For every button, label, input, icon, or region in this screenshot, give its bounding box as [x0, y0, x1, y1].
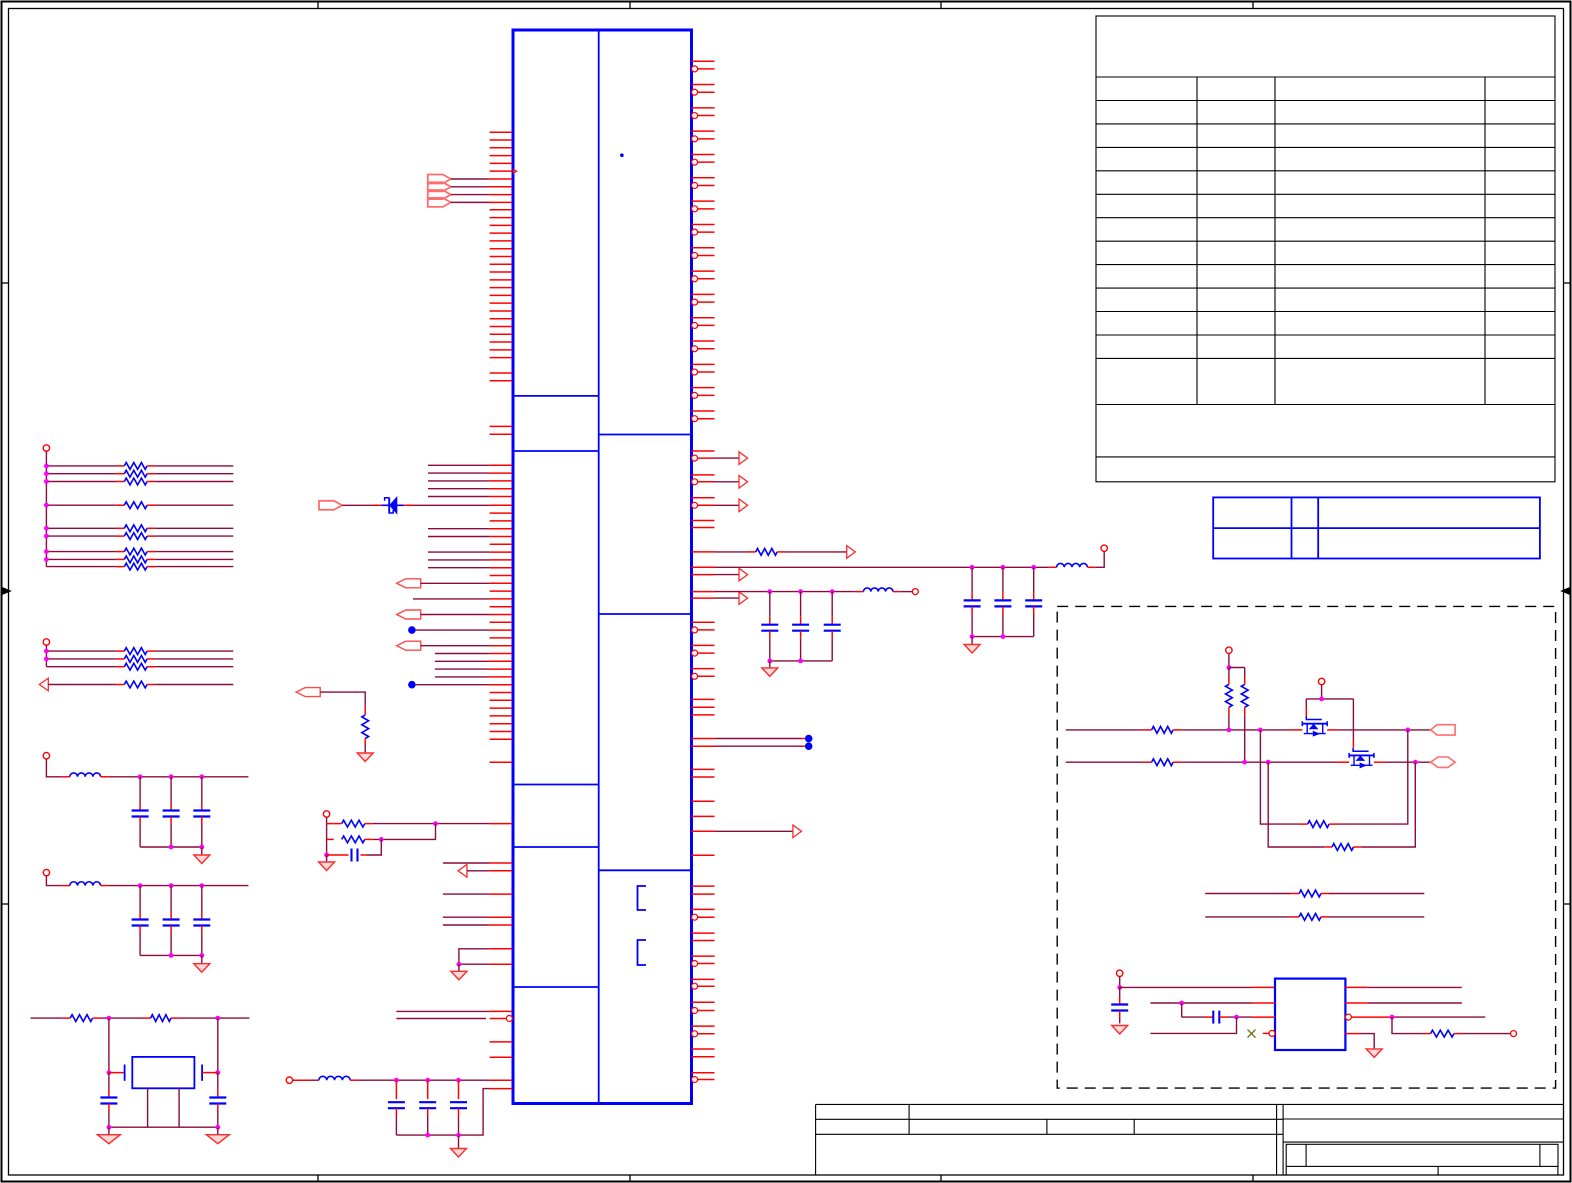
capacitor C13	[769, 592, 771, 617]
junction	[215, 1070, 220, 1075]
wire	[1321, 685, 1323, 699]
wire	[443, 924, 490, 926]
revision table	[1096, 16, 1555, 482]
wire	[1462, 1033, 1510, 1035]
junction	[199, 883, 204, 888]
wire	[459, 949, 490, 964]
resistor R3	[46, 481, 116, 483]
U2 pin bubble	[1263, 1032, 1270, 1034]
capacitor C7	[108, 1073, 110, 1090]
wire	[451, 194, 490, 196]
resistor R12	[46, 666, 116, 668]
resistor R22	[1244, 668, 1246, 677]
wire	[715, 574, 740, 576]
wire	[715, 566, 1049, 568]
note table	[1213, 497, 1540, 558]
wire	[421, 614, 490, 616]
junction	[433, 821, 438, 826]
U1 right pin bubbles	[692, 66, 698, 1083]
resistor R27	[1205, 893, 1291, 895]
capacitor C12	[458, 1080, 460, 1099]
diode D1	[373, 504, 382, 506]
terminal TP1	[1511, 1031, 1517, 1037]
capacitor C15	[831, 592, 833, 617]
ground GND12	[1366, 1049, 1382, 1058]
power terminal VCC7	[1101, 545, 1107, 551]
resistor R15	[143, 1017, 151, 1019]
resistor R16	[327, 823, 334, 825]
power terminal VCC9	[1226, 647, 1232, 653]
wire	[46, 876, 61, 886]
wire	[715, 591, 856, 593]
IC U2	[1275, 979, 1345, 1050]
signal arrow	[793, 825, 802, 838]
wire	[1228, 654, 1230, 668]
resistor R24	[1144, 761, 1152, 763]
crystal Y1	[109, 1072, 125, 1074]
wire	[109, 885, 249, 887]
port P2	[428, 175, 451, 184]
junction	[107, 1070, 112, 1075]
wire	[1095, 552, 1104, 568]
wire	[1066, 761, 1144, 763]
junction	[1117, 985, 1122, 990]
capacitor C10	[395, 1080, 397, 1099]
wire	[373, 824, 436, 840]
wire	[785, 551, 847, 553]
resistor R13	[48, 684, 116, 686]
ground GND3	[97, 1135, 120, 1144]
resistor R17	[327, 838, 334, 840]
junction	[1319, 697, 1324, 702]
wire	[770, 660, 832, 662]
junction	[138, 883, 143, 888]
junction	[44, 464, 49, 469]
inductor L4	[1049, 566, 1057, 568]
ground GND9	[762, 668, 778, 677]
wire	[1338, 729, 1430, 731]
junction	[199, 774, 204, 779]
power terminal VCC5	[323, 811, 329, 817]
capacitor C16	[971, 567, 973, 592]
junction	[44, 479, 49, 484]
wire	[443, 862, 490, 864]
node N4	[805, 742, 813, 750]
power terminal VCC2	[43, 639, 49, 645]
wire	[1229, 667, 1245, 669]
capacitor C9	[327, 854, 349, 856]
wire	[1351, 1016, 1392, 1018]
capacitor C14	[800, 592, 802, 617]
ground GND8	[451, 1149, 467, 1158]
inductor L1	[62, 776, 70, 778]
wire	[1228, 1016, 1252, 1018]
wire	[320, 692, 365, 707]
capacitor C18	[1033, 567, 1035, 592]
junction	[44, 557, 49, 562]
wire	[1119, 977, 1121, 988]
port P6	[319, 501, 342, 510]
transistor Q2	[1337, 761, 1349, 763]
no-connect X1	[1248, 1030, 1256, 1038]
wire	[428, 567, 490, 569]
capacitor C1	[139, 777, 141, 804]
wire	[1181, 729, 1292, 731]
port P11	[296, 688, 320, 697]
wire	[326, 855, 328, 862]
wire	[396, 1089, 489, 1136]
port P8	[397, 610, 421, 619]
U1 jumper bracket J1	[638, 886, 647, 910]
capacitor C17	[1002, 567, 1004, 592]
resistor R10	[46, 650, 116, 652]
capacitor C6	[201, 886, 203, 913]
ground GND1	[194, 855, 210, 864]
power terminal VCC10	[1318, 678, 1324, 684]
wire	[1120, 986, 1252, 988]
wire	[326, 839, 328, 855]
power terminal VCC6	[286, 1077, 292, 1083]
junction	[169, 774, 174, 779]
wire	[421, 582, 490, 584]
ground GND10	[964, 645, 980, 654]
port P3	[428, 182, 451, 191]
ground GND11	[1112, 1026, 1128, 1035]
resistor R23	[1144, 729, 1152, 731]
inductor L5	[856, 591, 864, 593]
port P4	[428, 190, 451, 199]
wire	[1150, 1002, 1252, 1004]
capacitor C11	[427, 1080, 429, 1099]
junction	[425, 1133, 430, 1138]
wire	[147, 1088, 149, 1127]
wire	[1385, 761, 1431, 763]
wire	[367, 839, 381, 855]
wire	[31, 1017, 63, 1019]
resistor R14	[62, 1017, 70, 1019]
IC U1	[513, 30, 692, 1104]
capacitor C19	[1119, 987, 1121, 996]
ground GND5	[319, 862, 335, 871]
wire	[467, 870, 490, 872]
resistor R2	[46, 473, 116, 475]
capacitor C5	[170, 886, 172, 913]
capacitor C8	[217, 1073, 219, 1090]
wire	[178, 1088, 180, 1127]
wire	[109, 776, 249, 778]
wire	[140, 846, 202, 848]
wire	[326, 817, 328, 823]
wire	[108, 1127, 110, 1135]
resistor R9	[46, 566, 116, 568]
wire	[443, 916, 490, 918]
capacitor C2	[170, 777, 172, 804]
resistor R4	[46, 504, 116, 506]
junction	[44, 471, 49, 476]
resistor R21	[1228, 668, 1230, 677]
ground GND7	[451, 971, 467, 980]
inductor L2	[62, 885, 70, 887]
wire	[715, 504, 740, 506]
isolation box	[1057, 606, 1555, 1088]
junction	[1390, 1015, 1395, 1020]
junction	[169, 845, 174, 850]
wire	[428, 559, 490, 561]
wire	[971, 637, 973, 645]
power terminal VCC1	[43, 445, 49, 451]
wire	[435, 668, 490, 670]
wire	[217, 1127, 219, 1135]
wire	[1066, 729, 1144, 731]
junction	[1179, 1001, 1184, 1006]
wire	[1345, 1033, 1360, 1035]
signal arrow	[847, 546, 856, 559]
junction	[44, 534, 49, 539]
wire	[326, 824, 328, 840]
wire	[396, 1010, 489, 1012]
wire	[179, 1017, 249, 1019]
resistor R1	[46, 465, 116, 467]
resistor R8	[46, 558, 116, 560]
terminal	[912, 589, 918, 595]
wire	[972, 636, 1034, 638]
wire	[715, 457, 740, 459]
title block	[816, 1104, 1564, 1174]
wire	[715, 481, 740, 483]
resistor R28	[1205, 916, 1291, 918]
junction	[1413, 760, 1418, 765]
wire	[428, 536, 490, 538]
wire	[413, 598, 490, 600]
U1 left pins	[490, 132, 513, 1088]
junction	[44, 549, 49, 554]
resistor R5	[46, 527, 116, 529]
wire	[715, 745, 802, 747]
node N1	[408, 626, 416, 634]
wire	[45, 645, 47, 667]
junction	[1227, 665, 1232, 670]
signal arrow	[739, 499, 748, 512]
resistor R26	[1268, 762, 1324, 847]
wire	[443, 893, 490, 895]
wire	[396, 1018, 486, 1020]
wire	[413, 504, 490, 506]
wire	[715, 738, 802, 740]
junction	[970, 565, 975, 570]
wire	[1305, 699, 1307, 707]
wire	[364, 744, 366, 753]
wire	[101, 1017, 143, 1019]
wire	[451, 201, 490, 203]
wire	[421, 645, 490, 647]
node dot	[620, 153, 624, 157]
U1 pin bubble	[506, 1016, 512, 1022]
junction	[970, 634, 975, 639]
junction	[324, 853, 329, 858]
wire	[428, 551, 490, 553]
wire	[428, 528, 490, 530]
ground GND2	[194, 964, 210, 973]
port P7	[397, 579, 421, 588]
wire	[458, 964, 460, 971]
wire	[769, 661, 771, 668]
capacitor C20	[1182, 1016, 1205, 1018]
wire	[451, 178, 490, 180]
U1 right pins	[692, 61, 715, 1079]
wire	[458, 1135, 460, 1148]
wire	[140, 954, 202, 956]
inductor L3	[293, 1079, 311, 1081]
wire bus	[428, 465, 490, 496]
junction	[1227, 728, 1232, 733]
capacitor C4	[139, 886, 141, 913]
wire	[715, 597, 740, 599]
resistor R25	[1260, 730, 1300, 824]
wire	[1181, 1003, 1183, 1017]
transistor Q1	[1292, 729, 1303, 731]
wire	[201, 955, 203, 963]
wire	[435, 676, 490, 678]
wire	[1181, 761, 1337, 763]
junction	[1234, 1015, 1239, 1020]
resistor R18	[364, 707, 366, 715]
U1 pin marker	[514, 169, 517, 173]
junction	[767, 589, 772, 594]
capacitor C3	[201, 777, 203, 804]
junction	[1242, 760, 1247, 765]
junction	[107, 1016, 112, 1021]
junction	[767, 659, 772, 664]
junction	[394, 1078, 399, 1083]
node N3	[805, 735, 813, 743]
signal arrow	[739, 476, 748, 489]
junction	[215, 1016, 220, 1021]
signal arrow	[739, 452, 748, 465]
power terminal VCC3	[43, 753, 49, 759]
port P5	[428, 198, 451, 207]
wire	[1352, 699, 1354, 740]
wire	[715, 830, 793, 832]
wire	[1150, 1017, 1236, 1033]
wire	[451, 186, 490, 188]
junction	[107, 1125, 112, 1130]
wire	[201, 847, 203, 855]
wire	[217, 1018, 219, 1073]
resistor R7	[46, 551, 116, 553]
signal arrow	[739, 592, 748, 605]
port P10	[458, 865, 467, 878]
ground GND4	[206, 1135, 229, 1144]
wire	[435, 653, 490, 655]
wire	[1306, 698, 1353, 700]
junction	[1405, 728, 1410, 733]
junction	[138, 774, 143, 779]
wire	[416, 684, 490, 686]
junction	[169, 883, 174, 888]
port P13	[1431, 757, 1455, 767]
junction	[44, 649, 49, 654]
wire	[435, 660, 490, 662]
port P12	[1431, 725, 1455, 735]
power terminal VCC4	[43, 869, 49, 875]
signal arrow	[739, 568, 748, 581]
power terminal VCC11	[1117, 970, 1123, 976]
wire	[46, 759, 61, 777]
wire	[108, 1018, 110, 1073]
resistor R6	[46, 535, 116, 537]
port P1	[39, 678, 48, 691]
resistor R29	[1392, 1017, 1423, 1034]
U2 pin bubble	[1345, 1014, 1351, 1020]
wire	[901, 591, 912, 593]
wire	[1345, 986, 1368, 988]
wire	[342, 504, 373, 506]
wire	[416, 629, 490, 631]
wire	[1345, 1002, 1368, 1004]
port P9	[397, 641, 421, 650]
resistor R19	[715, 551, 748, 553]
junction	[44, 503, 49, 508]
junction	[44, 526, 49, 531]
wire	[109, 1126, 218, 1128]
junction	[44, 657, 49, 662]
junction	[379, 837, 384, 842]
resistor R11	[46, 658, 116, 660]
wire	[45, 451, 47, 566]
node N2	[408, 681, 416, 689]
wire	[373, 823, 490, 825]
wire	[358, 1079, 490, 1081]
junction	[457, 962, 462, 967]
ground GND6	[357, 753, 373, 762]
junction	[169, 953, 174, 958]
U1 jumper bracket J2	[638, 940, 647, 965]
